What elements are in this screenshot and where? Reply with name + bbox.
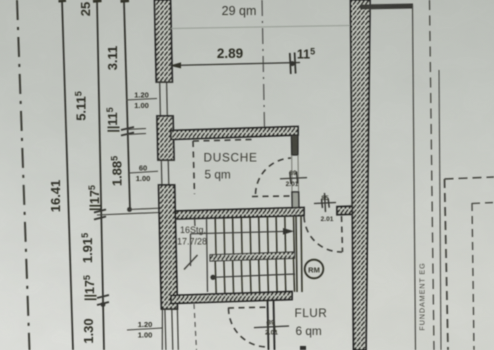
chain C bottom node dot [127, 207, 132, 212]
dimension chain A line (16.41 total) [62, 0, 73, 350]
DUSCHE door swing arc (dashed) [256, 158, 292, 194]
chain C top tick [121, 0, 130, 3]
boundary dash-dot line (Grenze) [17, 0, 30, 350]
chain B wall ticks y296/303 [97, 295, 109, 298]
stair mid stringer (hatched strip) [210, 252, 295, 261]
window W1 in left wall [156, 82, 173, 116]
window W3 in left wall (cut at bottom edge) [161, 309, 178, 350]
DUSCHE top wall (hatched) [171, 127, 298, 140]
chain C 11.5 wall ticks y128/133 [121, 127, 134, 130]
foundation outer dashed vertical [445, 179, 449, 350]
stair-top wall left part (hatched) [176, 208, 305, 220]
DUSCHE door jamb lines [291, 155, 293, 192]
stair treads lower flight [215, 258, 294, 294]
extension line chain C to wall y209 [130, 208, 164, 210]
left exterior wall segment 2 (hatched) [157, 116, 174, 160]
shower dashed outline left [193, 141, 195, 194]
FLUR left wall below stairs (double line) [268, 300, 269, 350]
stair direction break slash [184, 255, 198, 270]
stair-top wall right part (hatched) [337, 206, 353, 215]
node dot chain B [101, 302, 106, 307]
bottom edge tick [300, 346, 306, 350]
stair treads upper flight [215, 216, 294, 255]
dimension chain B line [97, 0, 104, 350]
shower dashed outline top [193, 140, 252, 142]
chain B top tick [93, 0, 102, 3]
left exterior wall segment 3 (hatched) [159, 185, 178, 309]
faint interior line top room [170, 26, 350, 29]
stair direction vertical connector [190, 234, 192, 266]
below-stair dashed line [194, 304, 197, 350]
chain A top tick [59, 0, 67, 3]
DUSCHE right wall upper piece [291, 135, 298, 155]
right exterior wall (hatched) [351, 0, 371, 350]
extension line to wall at y214 [97, 213, 159, 216]
window W2 in left wall [158, 160, 175, 185]
under-stair door dimension cross [254, 321, 289, 332]
under-stair door leaf (dashed) [228, 306, 266, 309]
dimension 2.89 line [170, 63, 300, 66]
arrowhead left of 2.89 [170, 62, 182, 68]
DUSCHE right wall lower piece [292, 192, 299, 208]
stair direction line upper with arrow [191, 231, 289, 234]
stair bottom wall (hatched) [171, 292, 292, 304]
right dashed line D1 [430, 0, 435, 350]
dimension chain C line [124, 2, 130, 210]
stair left edge line [207, 218, 208, 292]
node dot 2.89 right [290, 61, 295, 66]
right thin solid line L2 [439, 70, 441, 350]
foundation outer dashed horizontal [445, 177, 494, 179]
hall door dimension cross [314, 193, 336, 212]
top lintel bar right [360, 4, 413, 10]
hall door leaf (dashed) [342, 216, 343, 252]
stair edge stub [194, 218, 197, 227]
RM symbol circle [305, 260, 324, 279]
right thin solid line L1 [413, 5, 416, 350]
DUSCHE door leaf (dashed) [252, 195, 290, 198]
foundation inner dashed vertical [472, 203, 474, 350]
DUSCHE door dimension cross [280, 172, 307, 185]
stair right edge double line [296, 216, 297, 292]
foundation inner dashed horizontal [472, 203, 494, 204]
under-stair door swing arc (dashed) [229, 308, 268, 347]
left exterior wall segment top (hatched) [155, 0, 173, 82]
hall door arc (dashed) [304, 217, 342, 253]
stair direction line lower with start dot [210, 275, 215, 280]
centre dash-dot line [262, 0, 265, 128]
chain B wall ticks y211/218 [94, 210, 106, 213]
DIN ticks right of 2.89 (||) [290, 53, 291, 74]
